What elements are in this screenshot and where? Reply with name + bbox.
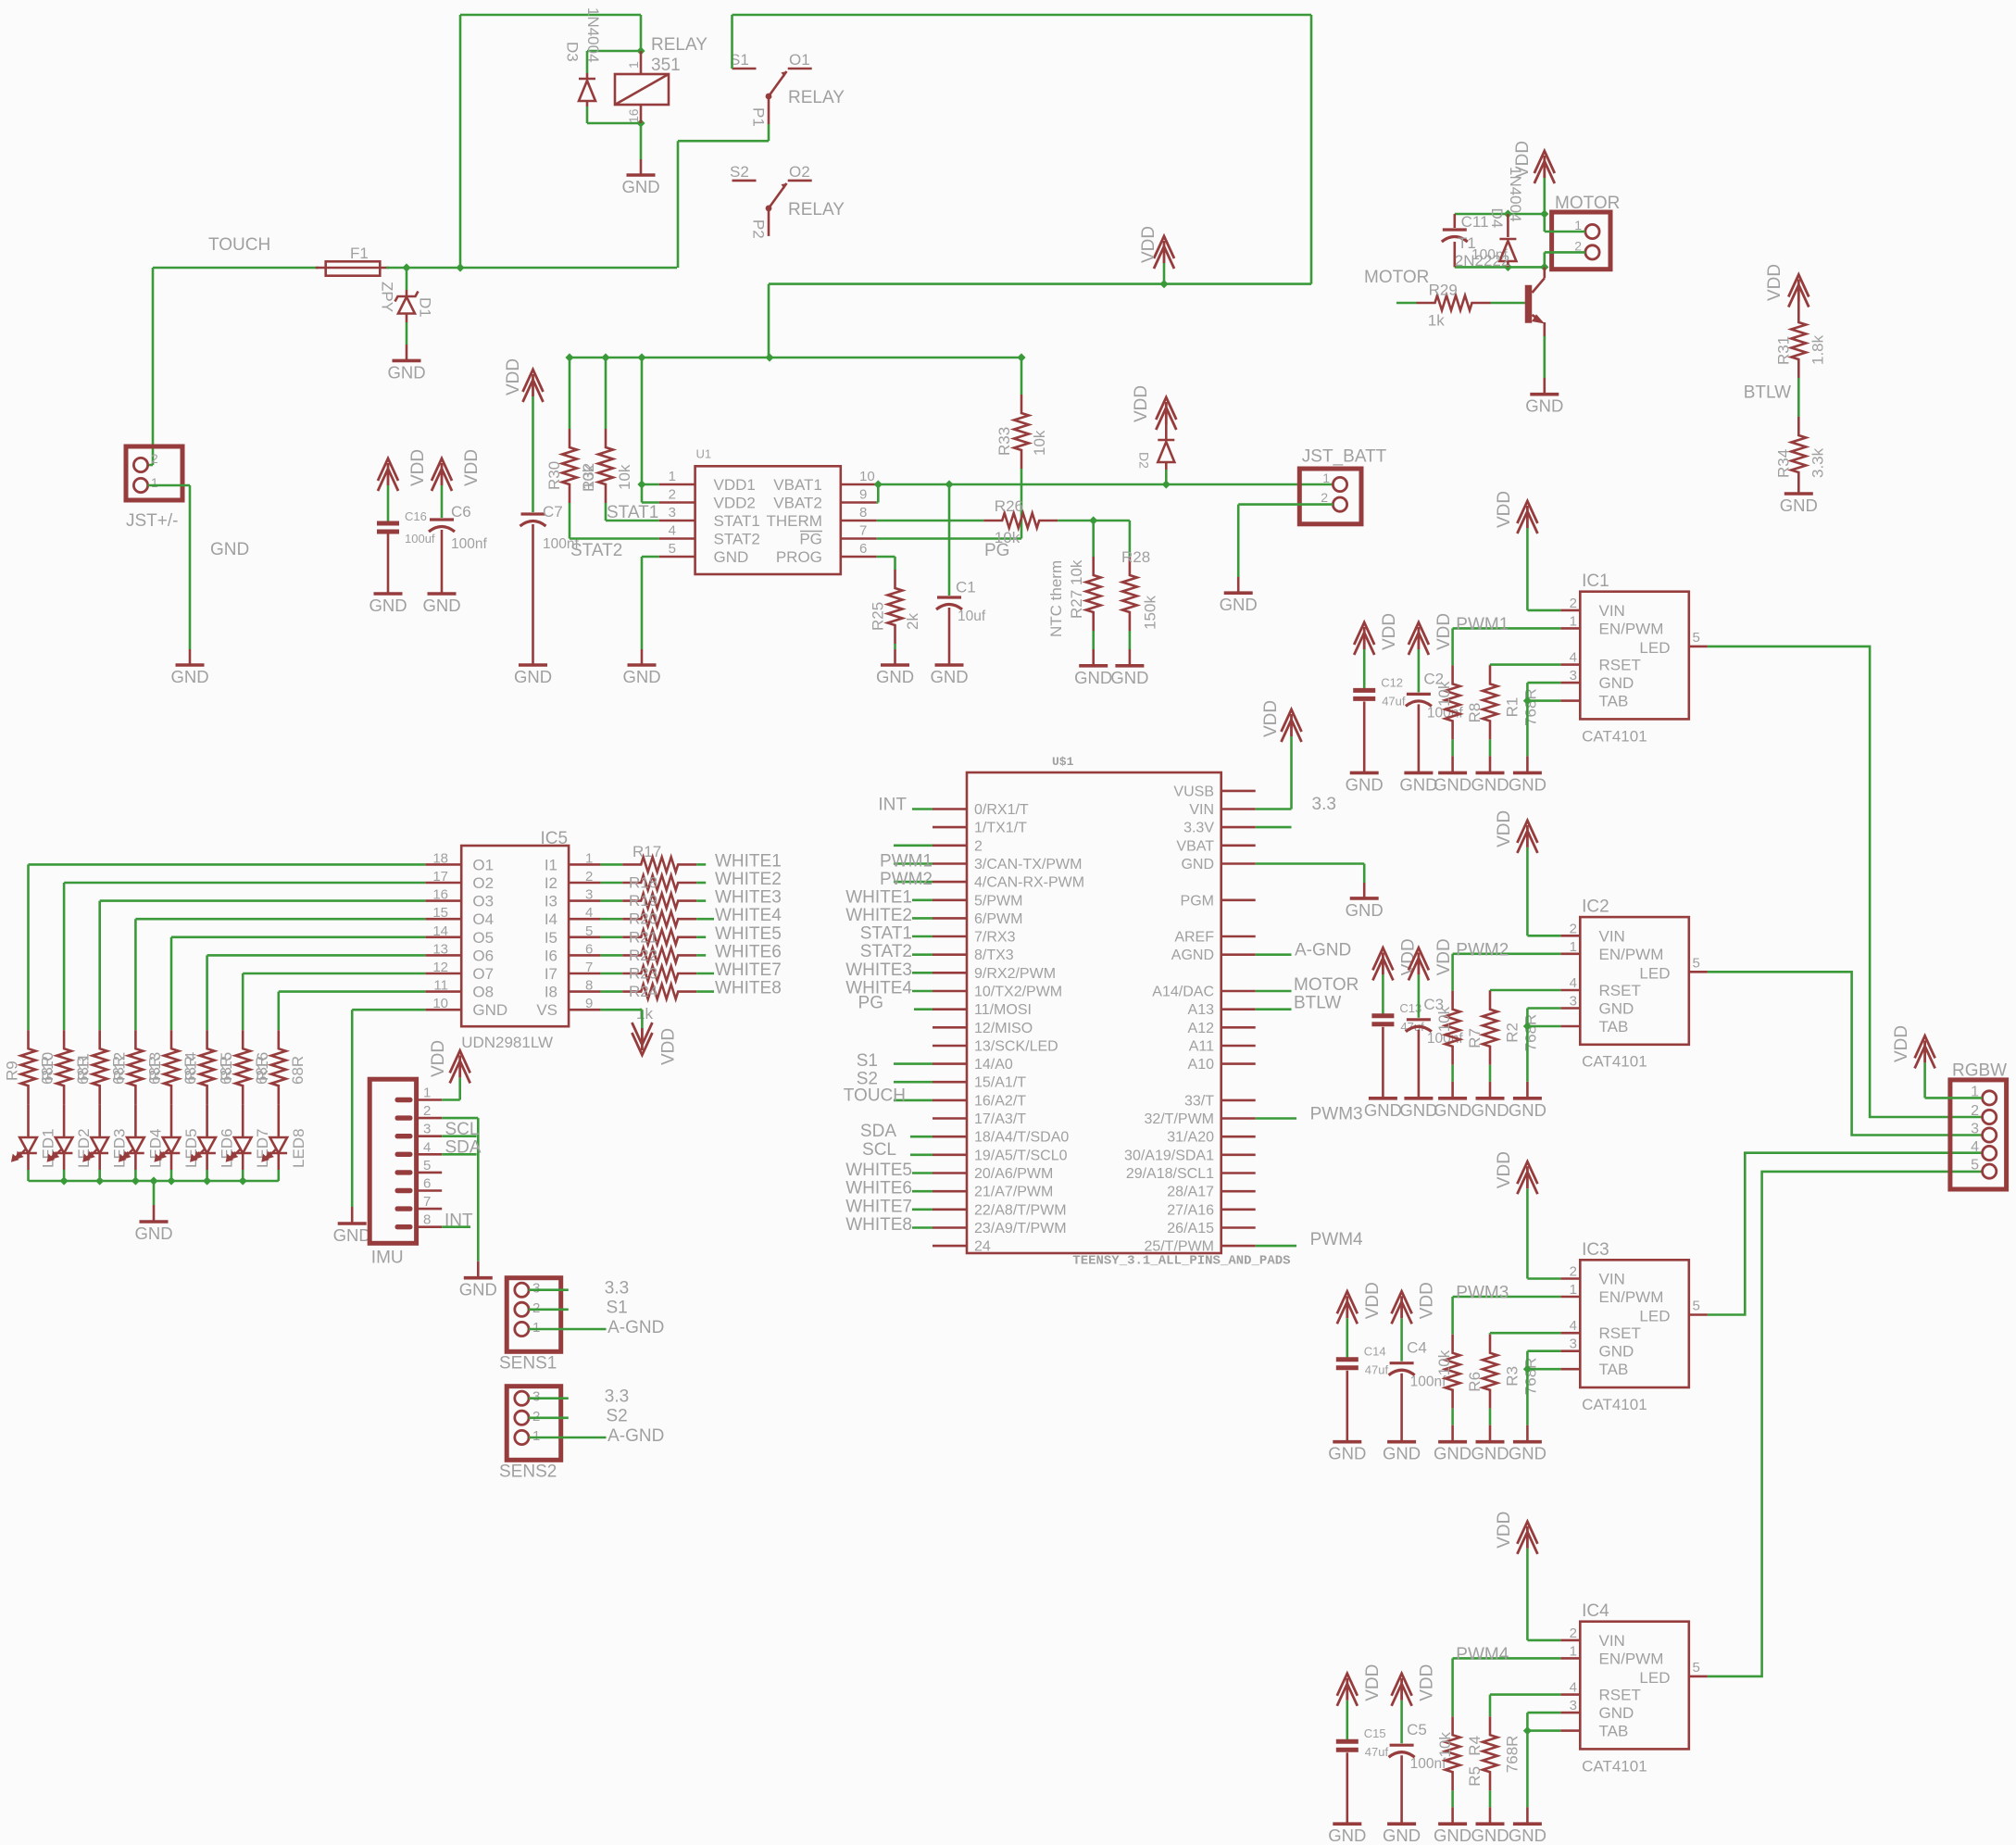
- svg-text:3.3: 3.3: [1312, 795, 1336, 814]
- wire motor pin2: [1545, 251, 1585, 254]
- ground C7: [514, 665, 552, 686]
- svg-text:2: 2: [532, 1300, 540, 1316]
- wire SDA: [442, 1153, 476, 1156]
- junction LED bus: [60, 1176, 69, 1185]
- wire THERM: [877, 520, 983, 522]
- wire down to TOUCH net: [459, 15, 462, 268]
- ground R34: [1780, 491, 1818, 515]
- capacitor C13 47uf: [1371, 1001, 1424, 1098]
- diode D2: [1137, 424, 1175, 470]
- svg-text:4/CAN-RX-PWM: 4/CAN-RX-PWM: [974, 875, 1084, 891]
- svg-text:T1: T1: [1458, 234, 1476, 252]
- svg-text:C11: C11: [1461, 213, 1489, 231]
- wire to relay pin 1: [640, 15, 643, 51]
- VDD supply RGBW: [1915, 1035, 1935, 1068]
- wire U1 pin2: [642, 501, 659, 504]
- svg-text:WHITE4: WHITE4: [715, 906, 782, 925]
- wire R3 top: [1489, 1333, 1492, 1335]
- wire IC2 RSET: [1490, 989, 1560, 992]
- capacitor C16 100uf: [377, 509, 435, 594]
- svg-text:PG: PG: [799, 531, 822, 548]
- svg-text:IC3: IC3: [1582, 1240, 1609, 1260]
- wire rail to U1 VDD rail: [768, 284, 770, 358]
- svg-text:PWM2: PWM2: [1456, 940, 1509, 960]
- junction motor VDD: [1540, 209, 1548, 218]
- svg-text:VDD1: VDD1: [714, 476, 756, 494]
- svg-text:D2: D2: [1137, 452, 1152, 469]
- svg-text:5: 5: [585, 923, 593, 939]
- svg-text:3: 3: [1570, 994, 1577, 1010]
- wire PWM3: [1256, 1117, 1296, 1120]
- svg-text:31/A20: 31/A20: [1167, 1130, 1214, 1146]
- svg-text:THERM: THERM: [766, 512, 821, 530]
- svg-text:4: 4: [1570, 650, 1577, 666]
- svg-text:LED3: LED3: [111, 1128, 129, 1168]
- svg-text:INT: INT: [445, 1211, 473, 1231]
- svg-text:WHITE6: WHITE6: [715, 942, 782, 961]
- fuse F1: [316, 245, 389, 276]
- svg-text:10: 10: [432, 996, 448, 1011]
- capacitor C5 100nf: [1389, 1721, 1446, 1824]
- svg-text:C6: C6: [451, 503, 471, 521]
- svg-text:4: 4: [423, 1139, 431, 1155]
- wire O6 down: [206, 955, 208, 1030]
- wire S2: [529, 1417, 569, 1420]
- svg-text:4: 4: [1570, 1318, 1577, 1334]
- svg-text:D3: D3: [564, 42, 582, 62]
- wire O6: [207, 954, 426, 957]
- svg-text:RELAY: RELAY: [788, 88, 845, 107]
- wire IC4 GND down: [1526, 1713, 1529, 1807]
- svg-text:VDD: VDD: [1363, 1282, 1383, 1319]
- svg-text:4: 4: [585, 905, 593, 921]
- junction relay pin1/D3: [636, 46, 645, 55]
- svg-text:I4: I4: [545, 910, 557, 928]
- wire R7 bottom: [1451, 1065, 1454, 1082]
- svg-text:32/T/PWM: 32/T/PWM: [1144, 1111, 1214, 1127]
- ground IC5: [333, 1207, 371, 1245]
- wire PWM3: [1453, 1296, 1561, 1299]
- LED LED6: [192, 1104, 236, 1170]
- wire O3 down: [98, 901, 101, 1031]
- svg-text:2: 2: [1570, 1264, 1577, 1280]
- wire emitter to ground: [1544, 336, 1546, 378]
- ground IC2 TAB: [1509, 1082, 1546, 1120]
- svg-text:LED: LED: [1639, 639, 1670, 657]
- wire IC2 VIN: [1527, 935, 1560, 937]
- IC IC1 CAT4101: [1560, 571, 1708, 745]
- wire WHITE2: [696, 882, 706, 885]
- svg-text:VUSB: VUSB: [1173, 784, 1214, 799]
- wire A14/DAC: [1256, 990, 1292, 993]
- svg-text:5: 5: [1971, 1158, 1979, 1174]
- VDD supply C12: [1354, 622, 1374, 655]
- junction VDD stub: [1159, 280, 1168, 288]
- wire to D1: [406, 268, 408, 290]
- svg-text:LED2: LED2: [75, 1128, 93, 1168]
- svg-text:O2: O2: [789, 163, 810, 181]
- svg-text:WHITE5: WHITE5: [715, 924, 782, 944]
- wire to R bank: [601, 882, 623, 885]
- wire IMU pin1: [442, 1098, 460, 1101]
- wire R5 bottom: [1451, 1790, 1454, 1807]
- svg-text:TAB: TAB: [1599, 1018, 1629, 1035]
- svg-text:3: 3: [585, 887, 593, 903]
- svg-text:20/A6/PWM: 20/A6/PWM: [974, 1166, 1053, 1182]
- wire net WHITE6: [912, 1190, 933, 1193]
- VDD supply C5: [1392, 1674, 1412, 1706]
- VDD supply IC3: [1517, 1161, 1537, 1194]
- svg-text:WHITE5: WHITE5: [845, 1161, 912, 1180]
- wire top rail: [733, 14, 1312, 17]
- VDD supply IC4: [1517, 1522, 1537, 1554]
- svg-text:15/A1/T: 15/A1/T: [974, 1075, 1026, 1091]
- svg-text:24: 24: [974, 1239, 991, 1255]
- svg-text:8: 8: [859, 505, 867, 521]
- wire JST_BATT pin2: [1238, 503, 1333, 506]
- wire C7 top: [532, 396, 534, 512]
- svg-text:GND: GND: [1599, 1704, 1634, 1722]
- VDD supply C4: [1392, 1291, 1412, 1324]
- junction LED bus: [239, 1176, 247, 1185]
- VDD supply C6: [432, 458, 452, 491]
- wire motor pin1: [1545, 231, 1585, 233]
- svg-text:S1: S1: [607, 1299, 628, 1318]
- svg-text:68R: 68R: [289, 1056, 307, 1085]
- svg-text:JST_BATT: JST_BATT: [1302, 447, 1387, 467]
- svg-text:RSET: RSET: [1599, 1687, 1641, 1704]
- wire JST pin1: [148, 484, 190, 487]
- wire R25 top: [894, 557, 896, 570]
- svg-text:100nf: 100nf: [451, 536, 487, 552]
- svg-text:VIN: VIN: [1599, 1271, 1625, 1288]
- svg-text:8: 8: [585, 978, 593, 994]
- wire C12 top: [1363, 649, 1366, 688]
- ground C4: [1383, 1442, 1421, 1463]
- svg-text:26/A15: 26/A15: [1167, 1221, 1214, 1236]
- wire R8 bottom: [1451, 739, 1454, 756]
- svg-text:10/TX2/PWM: 10/TX2/PWM: [974, 985, 1062, 1000]
- ground U1 pin5: [622, 649, 660, 686]
- junction R27: [1089, 516, 1097, 524]
- capacitor C4 100nf: [1389, 1339, 1446, 1442]
- resistor R26 10k: [983, 513, 1058, 528]
- svg-text:A-GND: A-GND: [607, 1318, 664, 1337]
- svg-text:6: 6: [585, 941, 593, 957]
- wire VDD rail U1: [570, 357, 1021, 359]
- svg-text:3: 3: [1971, 1122, 1979, 1137]
- wire 3.3: [529, 1288, 569, 1291]
- wire to R bank: [601, 899, 623, 902]
- svg-text:D1: D1: [417, 297, 434, 318]
- wire R6 bottom: [1451, 1409, 1454, 1425]
- ground IC4 TAB: [1509, 1807, 1546, 1845]
- svg-text:A-GND: A-GND: [607, 1426, 664, 1446]
- wire RGBW pin1: [1925, 1097, 1983, 1099]
- svg-text:3/CAN-TX/PWM: 3/CAN-TX/PWM: [974, 857, 1082, 872]
- svg-text:WHITE1: WHITE1: [715, 851, 782, 871]
- svg-text:3: 3: [1570, 1698, 1577, 1713]
- wire motor base left: [1396, 302, 1417, 305]
- wire coil-VDD top: [460, 14, 641, 17]
- wire WHITE8: [696, 990, 714, 993]
- wire PWM4: [1453, 1657, 1561, 1660]
- wire D1 to ground: [406, 322, 408, 345]
- svg-text:I6: I6: [545, 947, 557, 964]
- svg-text:O6: O6: [472, 947, 494, 964]
- svg-text:I2: I2: [545, 874, 557, 892]
- VDD supply VS (down): [632, 1023, 652, 1055]
- resistor R2 768R: [1483, 991, 1540, 1065]
- wire IC2 GND pin: [1527, 1007, 1560, 1010]
- wire R33 top: [1021, 358, 1023, 395]
- resistor R20 1k: [622, 911, 696, 926]
- svg-text:CAT4101: CAT4101: [1582, 1396, 1647, 1413]
- svg-text:R16: R16: [254, 1052, 271, 1081]
- svg-text:1: 1: [585, 850, 593, 866]
- svg-text:C1: C1: [956, 579, 976, 596]
- svg-text:47uf: 47uf: [1382, 694, 1406, 708]
- svg-text:R27: R27: [1068, 590, 1085, 619]
- resistor R6 10k: [1435, 1335, 1484, 1409]
- VDD supply top: [1154, 236, 1174, 269]
- svg-text:RELAY: RELAY: [651, 35, 707, 55]
- LED LED1: [13, 1104, 57, 1170]
- ground LED bus: [134, 1205, 172, 1243]
- wire IC2 VIN drop: [1526, 847, 1529, 935]
- wire S1 drop: [731, 15, 733, 69]
- svg-text:VDD: VDD: [659, 1028, 679, 1065]
- svg-text:PWM1: PWM1: [1456, 615, 1509, 634]
- wire O7 down: [242, 973, 244, 1030]
- resistor R23 1k: [622, 966, 696, 981]
- wire A13: [1256, 1008, 1292, 1010]
- svg-text:GND: GND: [1599, 674, 1634, 692]
- resistor R25: [870, 570, 922, 644]
- svg-text:R30: R30: [545, 461, 563, 490]
- svg-text:VDD: VDD: [429, 1040, 448, 1077]
- wire IC4 TAB pin: [1527, 1729, 1560, 1732]
- svg-text:10k: 10k: [995, 529, 1021, 546]
- transistor T1 2N2222: [1455, 234, 1545, 340]
- junction from relay rail: [765, 353, 773, 361]
- svg-text:R3: R3: [1503, 1366, 1521, 1387]
- wire PWM2: [1453, 953, 1561, 956]
- svg-text:TAB: TAB: [1599, 1361, 1629, 1378]
- relay K1 coil RELAY 351: [615, 35, 707, 123]
- svg-text:VS: VS: [536, 1001, 557, 1019]
- svg-text:10k: 10k: [1435, 681, 1453, 707]
- VDD supply VIN: [1282, 709, 1302, 742]
- wire D3 bottom drop: [586, 107, 589, 123]
- wire net PWM1: [894, 862, 933, 865]
- wire motor bottom rail: [1455, 266, 1545, 269]
- svg-text:2: 2: [532, 1409, 540, 1425]
- VDD supply C2: [1409, 622, 1429, 655]
- VDD supply IMU: [450, 1050, 470, 1083]
- IC IC3 CAT4101: [1560, 1240, 1708, 1413]
- ground R1: [1471, 756, 1509, 794]
- wire LED cathode: [27, 1170, 30, 1181]
- svg-text:11: 11: [433, 978, 448, 994]
- wire LED cathode: [63, 1170, 66, 1181]
- svg-text:6: 6: [859, 541, 867, 557]
- resistor R10 68R: [39, 1030, 92, 1104]
- wire R28 bottom: [1129, 631, 1132, 649]
- svg-text:TOUCH: TOUCH: [844, 1086, 906, 1105]
- VDD supply IC1: [1517, 501, 1537, 533]
- svg-text:PROG: PROG: [776, 548, 822, 566]
- svg-text:5: 5: [1693, 1660, 1700, 1676]
- svg-text:TAB: TAB: [1599, 693, 1629, 710]
- svg-text:R21: R21: [629, 928, 657, 946]
- wire P1 down: [768, 124, 770, 141]
- wire LED bus: [29, 1180, 279, 1183]
- ground JST pin1: [170, 649, 208, 686]
- wire VS down: [641, 1010, 644, 1028]
- capacitor C14 47uf: [1336, 1345, 1389, 1442]
- svg-text:R20: R20: [629, 910, 657, 928]
- svg-text:17/A3/T: 17/A3/T: [974, 1111, 1026, 1127]
- svg-text:RSET: RSET: [1599, 982, 1641, 999]
- wire IC4 GND pin: [1527, 1712, 1560, 1714]
- svg-text:R32: R32: [580, 463, 597, 492]
- wire VDD stub: [1163, 263, 1166, 284]
- svg-text:5: 5: [1693, 1299, 1700, 1314]
- svg-text:MOTOR: MOTOR: [1294, 975, 1359, 995]
- svg-text:150k: 150k: [1142, 596, 1159, 630]
- svg-text:EN/PWM: EN/PWM: [1599, 946, 1664, 963]
- svg-text:R7: R7: [1466, 1028, 1484, 1048]
- svg-text:JST+/-: JST+/-: [126, 511, 178, 531]
- svg-text:GND: GND: [714, 548, 749, 566]
- svg-text:10uf: 10uf: [958, 609, 986, 624]
- svg-text:STAT1: STAT1: [860, 924, 912, 944]
- resistor R18 1k: [622, 875, 696, 890]
- IC IC2 CAT4101: [1560, 897, 1708, 1071]
- wire R25 bottom: [894, 644, 896, 649]
- svg-text:22/A8/T/PWM: 22/A8/T/PWM: [974, 1202, 1067, 1218]
- VDD supply D2: [1156, 397, 1176, 430]
- wire D3 top: [587, 50, 641, 53]
- wire A-GND: [529, 1437, 607, 1439]
- svg-text:1: 1: [151, 475, 158, 490]
- svg-text:IC2: IC2: [1582, 897, 1609, 917]
- wire VBAT2 link: [877, 501, 879, 504]
- svg-text:C16: C16: [405, 509, 427, 523]
- svg-text:VDD: VDD: [1434, 613, 1454, 650]
- resistor R27 NTC 10k: [1086, 557, 1101, 631]
- svg-text:SCL: SCL: [445, 1120, 480, 1139]
- resistor R24 1k: [622, 985, 696, 999]
- wire WHITE3: [696, 899, 706, 902]
- svg-text:AREF: AREF: [1174, 930, 1214, 946]
- svg-text:VIN: VIN: [1599, 602, 1625, 620]
- svg-text:11/MOSI: 11/MOSI: [974, 1002, 1032, 1018]
- svg-text:27/A16: 27/A16: [1167, 1202, 1214, 1218]
- wire R32 top: [605, 358, 607, 429]
- svg-text:LED8: LED8: [290, 1128, 307, 1168]
- svg-text:1: 1: [1574, 218, 1582, 232]
- svg-text:2N2222: 2N2222: [1455, 252, 1510, 270]
- LED LED3: [84, 1104, 129, 1170]
- svg-text:7/RX3: 7/RX3: [974, 930, 1016, 946]
- svg-text:C4: C4: [1407, 1339, 1427, 1357]
- svg-text:R26: R26: [995, 497, 1023, 515]
- wire C6 top: [441, 485, 444, 518]
- ground IC1 TAB: [1509, 756, 1546, 794]
- wire IC3 GND down: [1526, 1351, 1529, 1425]
- resistor R7 10k: [1435, 991, 1484, 1065]
- svg-text:VDD: VDD: [1261, 700, 1281, 737]
- wire O3: [100, 899, 426, 902]
- svg-text:O3: O3: [472, 893, 494, 910]
- wire net SCL: [910, 1154, 933, 1157]
- wire IC3 GND pin: [1527, 1349, 1560, 1352]
- ground C6: [422, 594, 460, 615]
- svg-text:S2: S2: [607, 1407, 628, 1426]
- svg-text:RSET: RSET: [1599, 657, 1641, 674]
- diode D3: [564, 7, 603, 107]
- wire R1 bottom: [1489, 739, 1492, 756]
- svg-text:19/A5/T/SCL0: 19/A5/T/SCL0: [974, 1148, 1068, 1163]
- connector RGBW: [1950, 1061, 2007, 1190]
- wire P1 left: [678, 140, 769, 143]
- resistor R8 10k: [1435, 665, 1484, 739]
- svg-text:VDD: VDD: [1139, 226, 1158, 263]
- wire R2 top: [1489, 989, 1492, 992]
- svg-text:IC1: IC1: [1582, 571, 1609, 591]
- svg-text:A10: A10: [1188, 1057, 1215, 1073]
- ground R4: [1471, 1807, 1509, 1845]
- svg-text:GND: GND: [210, 540, 249, 559]
- label R28 150k: [1121, 548, 1159, 630]
- ground R25: [876, 649, 914, 686]
- ground C5: [1383, 1824, 1421, 1845]
- junction D1 tap: [402, 263, 410, 271]
- svg-text:3: 3: [532, 1281, 540, 1297]
- wire IC1 GND pin: [1527, 682, 1560, 684]
- svg-text:R22: R22: [629, 947, 657, 964]
- svg-text:9: 9: [585, 996, 593, 1011]
- svg-text:ZPY: ZPY: [379, 282, 396, 312]
- svg-text:R1: R1: [1503, 697, 1521, 718]
- wire IC5 GND: [352, 1009, 425, 1011]
- svg-text:3.3: 3.3: [605, 1279, 629, 1299]
- svg-text:25/T/PWM: 25/T/PWM: [1144, 1239, 1214, 1255]
- svg-text:5/PWM: 5/PWM: [974, 893, 1022, 909]
- svg-text:5: 5: [669, 541, 676, 557]
- wire: [894, 844, 933, 847]
- svg-text:4: 4: [1971, 1139, 1979, 1155]
- VDD supply C16: [378, 458, 398, 491]
- wire WHITE4: [696, 918, 714, 921]
- junction R30: [565, 353, 573, 361]
- wire TOUCH right: [386, 267, 677, 270]
- wire IC4 VIN drop: [1526, 1549, 1529, 1640]
- junction LED bus: [167, 1176, 175, 1185]
- capacitor C11 100nf: [1442, 213, 1509, 267]
- wire IC3 LED to RGBW pin4: [1708, 1153, 1983, 1315]
- svg-text:R2: R2: [1503, 1023, 1521, 1043]
- ground C12: [1346, 772, 1384, 794]
- wire VBAT rail: [877, 483, 1334, 486]
- svg-text:VDD: VDD: [1418, 1282, 1437, 1319]
- wire C5 top: [1400, 1701, 1403, 1743]
- svg-text:14/A0: 14/A0: [974, 1057, 1013, 1073]
- wire O4 down: [134, 919, 137, 1030]
- svg-text:VDD: VDD: [1380, 613, 1399, 650]
